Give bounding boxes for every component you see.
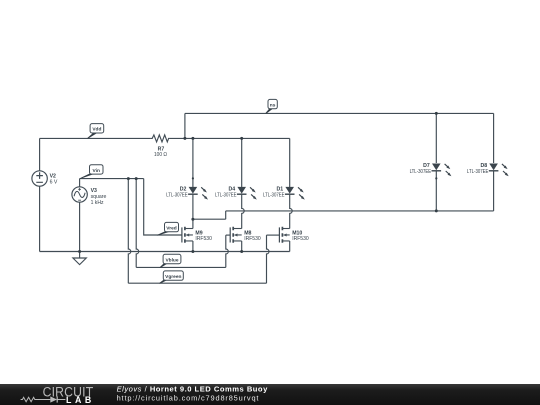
wire M9 source to ground — [192, 241, 194, 252]
voltage source V3 — [72, 187, 87, 202]
wire Vdd vertical from V2 top — [39, 138, 41, 170]
svg-text:LAB: LAB — [66, 395, 95, 405]
LED D1 — [285, 187, 305, 200]
junction D7 cathode return — [435, 209, 438, 212]
junction M9 source ground — [191, 250, 194, 253]
svg-text:IRF530: IRF530 — [244, 236, 261, 242]
svg-text:Vdd: Vdd — [92, 127, 101, 133]
svg-text:1 kHz: 1 kHz — [91, 200, 104, 206]
svg-text:100 Ω: 100 Ω — [154, 152, 167, 158]
wire D4 anode — [241, 138, 243, 187]
voltage source V2 — [32, 171, 47, 186]
svg-text:LTL-307EE: LTL-307EE — [410, 169, 432, 175]
wire M8 source to ground — [241, 241, 243, 252]
wire Vdd horizontal to R7 — [40, 137, 151, 139]
svg-text:Vgreen: Vgreen — [165, 274, 181, 280]
LED D4 — [237, 187, 257, 200]
wire step horizontal to M9 drain — [193, 218, 226, 220]
wire Vblue riser (hop over ground bus) — [136, 179, 139, 268]
svg-text:http://circuitlab.com/c79d8r85: http://circuitlab.com/c79d8r85urvqt — [117, 393, 260, 402]
CircuitLab logo icon (resistor-diode) — [21, 396, 66, 402]
wire R7 output to D1 corner — [170, 137, 290, 139]
wire D7 cathode down — [435, 171, 437, 211]
junction D2 anode — [191, 137, 194, 140]
transistor M8 — [230, 227, 242, 243]
wire D7 anode drop — [435, 113, 437, 163]
net flag Vin — [80, 165, 104, 179]
svg-text:D2: D2 — [180, 186, 187, 192]
svg-text:6 V: 6 V — [50, 179, 58, 185]
transistor M10 — [279, 227, 289, 243]
wire Vblue gate lead — [226, 234, 230, 236]
net flag Vblue — [159, 254, 181, 268]
svg-text:D1: D1 — [277, 186, 284, 192]
wire D1 cathode to M10 drain (hop over return wire) — [290, 195, 293, 229]
junction D7 anode — [435, 112, 438, 115]
wire M10 source to ground — [289, 241, 291, 252]
svg-text:LTL-307EE: LTL-307EE — [166, 192, 188, 198]
svg-text:ns: ns — [270, 104, 276, 109]
wire D1 anode — [289, 138, 291, 187]
junction Vblue riser on Vin wire — [135, 177, 138, 180]
net flag Vgreen — [159, 271, 183, 284]
svg-text:IRF530: IRF530 — [292, 236, 309, 242]
wire ns horizontal top — [185, 112, 494, 114]
junction D4 anode — [240, 137, 243, 140]
svg-text:IRF530: IRF530 — [195, 236, 212, 242]
wire ns vertical riser — [184, 113, 186, 138]
wire Vgreen riser (hop over ground bus) — [128, 179, 131, 284]
svg-text:Elyovs / Hornet 9.0 LED Comms: Elyovs / Hornet 9.0 LED Comms Buoy — [117, 384, 268, 393]
junction M8 source ground — [240, 250, 243, 253]
node joint D2 anode segment — [192, 177, 194, 179]
wire D2 anode — [192, 138, 194, 187]
wire Vblue vertical to M8 gate (hop over ground bus) — [226, 235, 229, 267]
svg-text:D8: D8 — [480, 163, 487, 169]
wire V3 bottom stub — [79, 202, 81, 251]
net flag Vred — [156, 222, 178, 235]
svg-text:LTL-307EE: LTL-307EE — [263, 192, 285, 198]
junction R7 output / ns riser — [183, 137, 186, 140]
wire V2 bottom — [39, 186, 41, 251]
LED D2 — [188, 187, 208, 200]
junction V3 ground — [78, 250, 81, 253]
svg-text:D7: D7 — [423, 163, 430, 169]
LED D8 — [489, 164, 509, 177]
svg-text:LTL-307EE: LTL-307EE — [215, 192, 237, 198]
resistor R7 — [150, 135, 169, 142]
wire Vgreen vertical to M10 gate (hop over ground bus) — [267, 235, 270, 283]
junction Vgreen riser on Vin wire — [127, 177, 130, 180]
svg-text:Vred: Vred — [166, 226, 176, 232]
net flag ns — [265, 99, 277, 113]
node joint D7 cathode segment — [435, 177, 437, 179]
svg-text:LTL-307EE: LTL-307EE — [467, 169, 489, 175]
svg-text:Vin: Vin — [93, 168, 100, 174]
svg-text:Vblue: Vblue — [165, 257, 178, 263]
wire D2 cathode to M9 drain — [192, 195, 194, 229]
LED D7 — [432, 164, 452, 177]
wire Vgreen gate lead — [267, 234, 280, 236]
wire Vin horizontal from V3 — [80, 178, 144, 180]
wire V3 top stub — [79, 179, 81, 187]
wire step vertical — [225, 211, 227, 219]
wire Vred riser and gate lead — [144, 179, 182, 235]
wire Vgreen horizontal — [128, 282, 266, 284]
net flag Vdd — [87, 124, 104, 139]
ground — [73, 252, 86, 265]
svg-text:D4: D4 — [229, 186, 236, 192]
wire bottom-right horizontal (D7/D8 return) — [226, 210, 494, 212]
junction M9 drain / return wire — [191, 218, 194, 221]
wire ground bus — [40, 251, 290, 253]
wire Vblue horizontal — [136, 266, 226, 268]
transistor M9 — [182, 227, 193, 243]
wire D8 cathode down — [493, 171, 495, 211]
wire D4 cathode to M8 drain (hop over return wire) — [242, 195, 245, 229]
wire D8 anode drop — [493, 113, 495, 163]
